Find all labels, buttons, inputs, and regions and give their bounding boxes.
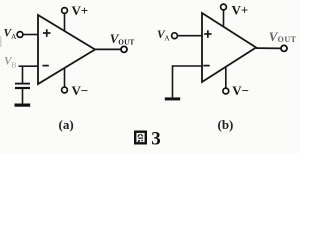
U2 plus input marking bbox=[204, 30, 211, 38]
svg-text:A: A bbox=[164, 33, 170, 42]
terminal VOUT (circuit b) bbox=[281, 45, 287, 51]
svg-text:V−: V− bbox=[72, 83, 89, 98]
wire VA to noninverting input bbox=[23, 34, 39, 36]
wire VB to inverting input bbox=[19, 65, 39, 67]
svg-text:A: A bbox=[11, 32, 17, 41]
ground (circuit b) bbox=[165, 97, 180, 100]
svg-text:V+: V+ bbox=[232, 3, 249, 18]
svg-text:OUT: OUT bbox=[118, 39, 134, 47]
scan artifact left edge bbox=[0, 36, 2, 47]
U2 minus input marking bbox=[203, 65, 209, 67]
svg-text:(b): (b) bbox=[218, 117, 234, 132]
wire VA to noninverting input (circuit b) bbox=[177, 35, 202, 37]
svg-text:B: B bbox=[12, 60, 17, 69]
wire V- from triangle bottom edge bbox=[64, 68, 66, 87]
terminal V+ (circuit a) bbox=[62, 8, 68, 14]
ground (circuit a) bbox=[15, 103, 31, 106]
U1 minus input marking bbox=[43, 65, 49, 67]
svg-text:3: 3 bbox=[151, 129, 161, 150]
wire output (circuit a) bbox=[95, 48, 121, 50]
svg-text:V−: V− bbox=[232, 83, 249, 98]
terminal VA (circuit b) bbox=[172, 33, 178, 39]
capacitor C1 bbox=[15, 84, 30, 88]
svg-text:V+: V+ bbox=[72, 3, 89, 18]
svg-text:OUT: OUT bbox=[278, 35, 297, 44]
wire capacitor to ground bbox=[22, 89, 24, 104]
terminal V- (circuit b) bbox=[223, 88, 229, 94]
terminal V+ (circuit b) bbox=[221, 4, 227, 10]
op-amp U1 (circuit a) triangle bbox=[38, 15, 95, 84]
U1 plus input marking bbox=[43, 29, 51, 37]
wire inverting input to ground (circuit b) bbox=[173, 66, 203, 97]
wire V+ to triangle top edge (circuit b) bbox=[223, 10, 225, 27]
wire V- from triangle bottom edge (circuit b) bbox=[225, 67, 227, 88]
wire V+ to triangle top edge bbox=[64, 14, 66, 31]
terminal VOUT (circuit a) bbox=[121, 46, 127, 52]
wire output (circuit b) bbox=[256, 47, 281, 49]
svg-text:(a): (a) bbox=[59, 117, 74, 132]
figure caption glyph 图 bbox=[135, 132, 146, 144]
node junction to capacitor C1 bbox=[22, 66, 24, 83]
op-amp U2 (circuit b) triangle bbox=[202, 13, 256, 82]
terminal V- (circuit a) bbox=[62, 87, 68, 93]
terminal VA (circuit a) bbox=[17, 32, 23, 38]
